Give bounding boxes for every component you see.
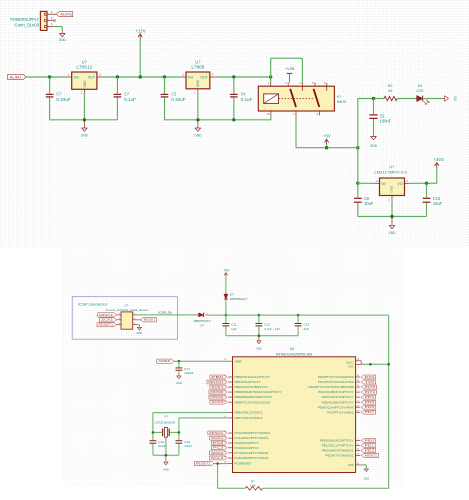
U5 pin 28 PC5 with label SCL0 xyxy=(209,456,268,460)
U5 pin 10 PD6 with label PD6 xyxy=(318,405,376,409)
junction VCC riser xyxy=(387,363,390,366)
capacitor C14 100nF xyxy=(176,361,195,376)
pin 3 of U3 xyxy=(374,179,379,184)
pin 3 of J1 xyxy=(47,22,53,26)
svg-text:PE1: PE1 xyxy=(365,444,376,447)
svg-text:GND: GND xyxy=(59,37,66,42)
power symbol +5V (bottom sheet) xyxy=(223,268,230,276)
LED D3 xyxy=(416,83,429,104)
svg-text:OUT: OUT xyxy=(200,76,208,80)
wire R2 to D3 xyxy=(397,98,417,100)
svg-text:GND: GND xyxy=(81,133,88,138)
pin 2 of J1 (unconnected) xyxy=(47,16,55,22)
capacitor C19 22pF xyxy=(176,440,193,455)
svg-text:PB4/MISO0/RXD1/PTCXY: PB4/MISO0/RXD1/PTCXY xyxy=(235,395,273,399)
svg-text:SDA0: SDA0 xyxy=(211,452,225,455)
svg-text:+5V: +5V xyxy=(323,134,331,139)
power symbol +5V xyxy=(323,134,331,144)
resonator ground rail xyxy=(153,454,179,456)
svg-text:PB1/OC1A/PTCXY: PB1/OC1A/PTCXY xyxy=(235,380,262,384)
svg-text:C?: C? xyxy=(124,92,129,97)
wire D2 to 5V node xyxy=(225,302,227,315)
U5 pin 13 PB1 with label RES1013 xyxy=(207,380,261,384)
resistor R2 1K xyxy=(384,83,397,101)
svg-text:INT0: INT0 xyxy=(365,386,377,389)
wire PB7 to resonator xyxy=(179,417,228,419)
U5 pin 17 PB5 with label SCK0 xyxy=(210,400,271,404)
svg-text:VI: VI xyxy=(381,182,386,186)
svg-text:Conn_01x03: Conn_01x03 xyxy=(15,22,40,27)
svg-text:PD6: PD6 xyxy=(365,406,376,409)
wire resonator left leg xyxy=(153,413,163,441)
junction at C10 top xyxy=(425,182,428,185)
svg-text:POWERSUPPLY: POWERSUPPLY xyxy=(10,17,39,22)
U5 pin 7 PB6/XTAL1 xyxy=(225,411,264,415)
svg-text:PD7: PD7 xyxy=(365,411,376,414)
U5 AVCC pin 18 xyxy=(346,359,361,365)
grid top sheet xyxy=(0,0,469,248)
U5 pin 24 PC1 with label SCK1 xyxy=(209,436,268,440)
U5 pin 29 PC6/RESET with label RESET1 xyxy=(224,462,252,466)
svg-text:PE0/SDA1/ACO/PTCXY: PE0/SDA1/ACO/PTCXY xyxy=(320,439,354,443)
svg-text:0.33uF: 0.33uF xyxy=(171,97,186,102)
junction +5V xyxy=(325,146,328,149)
svg-text:PE2: PE2 xyxy=(365,449,376,452)
wire relay common to +5V rail xyxy=(295,115,297,147)
svg-text:GND: GND xyxy=(163,467,169,471)
wire 5V down right side xyxy=(388,315,390,364)
svg-text:C4: C4 xyxy=(241,92,246,97)
grid bottom sheet xyxy=(62,248,404,486)
svg-text:RX0: RX0 xyxy=(365,376,376,379)
svg-text:TX0: TX0 xyxy=(365,381,376,384)
wire resonator right leg xyxy=(169,418,179,440)
pin 1 of U1 xyxy=(66,73,72,78)
wire U2 OUT to relay xyxy=(215,76,271,78)
wire U3 GND down xyxy=(391,200,393,217)
svg-text:MOSI0: MOSI0 xyxy=(210,391,224,394)
junction at U3 input xyxy=(356,182,359,185)
svg-text:CSTCE16M0V53-R0: CSTCE16M0V53-R0 xyxy=(155,420,176,424)
svg-text:GND: GND xyxy=(176,381,182,385)
svg-text:GND: GND xyxy=(363,477,369,481)
wire +VSB to relay pin xyxy=(289,79,291,83)
svg-text:PC3/ADC3/PTCY: PC3/ADC3/PTCY xyxy=(235,446,260,450)
global label RESET1 xyxy=(97,323,117,327)
svg-text:PB5/PTCXY/XCK1/SCK0: PB5/PTCXY/XCK1/SCK0 xyxy=(235,400,271,404)
svg-text:1uF: 1uF xyxy=(303,327,309,331)
svg-text:GND: GND xyxy=(388,230,395,235)
wire RESET pull-up down xyxy=(217,464,219,489)
ground symbol under C6 xyxy=(370,136,377,148)
junction resonator right xyxy=(178,431,181,434)
svg-text:RESET1: RESET1 xyxy=(196,462,212,465)
wire U1 OUT to U2 IN xyxy=(103,76,181,78)
resistor R1 10K xyxy=(245,480,262,490)
svg-text:GND: GND xyxy=(196,80,200,88)
svg-text:PC4/ADC4/PTCY/SDA0: PC4/ADC4/PTCY/SDA0 xyxy=(235,451,269,455)
svg-text:ATMEGA328PB-AN: ATMEGA328PB-AN xyxy=(276,352,313,356)
global label MOSI1 xyxy=(140,318,156,322)
svg-text:VO: VO xyxy=(397,182,403,186)
power symbol +12V xyxy=(136,28,146,38)
svg-text:10uF: 10uF xyxy=(433,201,443,206)
wire PB6 to resonator xyxy=(153,412,228,414)
svg-text:J?: J? xyxy=(124,303,128,307)
svg-text:PD5/OC0B/T1/PTCXY: PD5/OC0B/T1/PTCXY xyxy=(322,400,354,404)
wire J2 pin6 to GND xyxy=(137,325,139,328)
capacitor C6 100nF xyxy=(369,99,391,137)
wire R1 to VCC riser xyxy=(263,487,389,489)
svg-text:22pF: 22pF xyxy=(184,444,192,448)
wire rail to relay coil pin xyxy=(270,77,272,83)
wire main 5V line xyxy=(209,314,226,316)
junction at C4 top xyxy=(232,75,235,78)
capacitor C9 10uF xyxy=(354,183,374,216)
U5 pin 32 PD2 with label INT0 xyxy=(309,385,377,389)
ground symbol at J2 xyxy=(137,327,141,330)
svg-text:IN: IN xyxy=(74,76,79,80)
connector J2 Conn_02x03_Odd_Even xyxy=(106,303,149,329)
relay K1 IM03 xyxy=(258,86,346,111)
junction rail2 at C4 bottom xyxy=(232,118,235,121)
svg-text:PD1/PTCXY/OC4A/TXD0: PD1/PTCXY/OC4A/TXD0 xyxy=(318,380,354,384)
svg-text:1uF: 1uF xyxy=(231,327,237,331)
svg-text:X?: X? xyxy=(164,414,168,418)
U5 pin 23 PC0 with label MISO1 xyxy=(208,431,271,435)
svg-text:AREF: AREF xyxy=(235,359,243,363)
wire RESET1 to pin xyxy=(214,463,228,465)
svg-text:GND: GND xyxy=(83,80,87,88)
svg-text:PC1/ADC1/PTCY/SCK1: PC1/ADC1/PTCY/SCK1 xyxy=(235,436,269,440)
capacitor C4 0.1uF xyxy=(230,77,253,120)
U5 pin 6 PE1 with label PE1 xyxy=(322,444,376,448)
wire relay coil- to ground rail xyxy=(270,115,272,119)
wire +5V rail down to U3 input xyxy=(357,148,359,184)
U5 pin 15 PB3 with label MOSI0 xyxy=(209,390,282,394)
ground symbol cap rail xyxy=(256,336,262,351)
svg-text:MISO1: MISO1 xyxy=(365,454,379,457)
wire +5V rail up to LED branch xyxy=(357,99,359,148)
junction AVCC xyxy=(369,363,372,366)
svg-text:U5: U5 xyxy=(290,347,295,351)
svg-text:RES1013: RES1013 xyxy=(208,381,224,384)
U5 VCC pin 4 xyxy=(348,364,361,368)
svg-text:SCL0: SCL0 xyxy=(211,457,225,460)
pin 3 of U1 xyxy=(97,73,103,78)
svg-text:PB6/XTAL1/TOSC1: PB6/XTAL1/TOSC1 xyxy=(235,411,264,415)
U5 pin 26 PC3 with label PC3 xyxy=(211,446,259,450)
svg-text:+VSB: +VSB xyxy=(285,66,295,71)
power symbol +VSB xyxy=(285,66,295,79)
U5 pin 30 PD0 with label RX0 xyxy=(318,375,376,379)
svg-text:1K: 1K xyxy=(388,88,393,93)
ground symbol under C14 xyxy=(177,376,181,379)
wire VCC riser xyxy=(388,364,390,488)
diode D2 MBR0520LT (5V feed) xyxy=(224,292,248,302)
wire resonator center pin to ground xyxy=(165,437,167,455)
capacitor C1 0.33uF xyxy=(46,77,71,120)
svg-text:PD4: PD4 xyxy=(365,396,376,399)
svg-text:L78S12: L78S12 xyxy=(76,65,93,70)
U5 pin 22 PE3 with label MISO1 xyxy=(325,453,378,457)
svg-text:0.33uF: 0.33uF xyxy=(56,97,71,102)
junction at C12 xyxy=(258,314,261,317)
global label RESET1 at U5 xyxy=(194,462,214,466)
junction at C2 top xyxy=(116,75,119,78)
wire +5V to D2 xyxy=(225,277,227,292)
svg-text:PC2/ADC2/PTCY: PC2/ADC2/PTCY xyxy=(235,441,260,445)
resonator X1 CSTCE16M0V53 xyxy=(155,414,176,437)
svg-text:MISO0: MISO0 xyxy=(210,396,224,399)
junction resonator ground xyxy=(165,454,168,457)
wire J2 pin2 ICSP_5V xyxy=(137,314,195,316)
svg-text:L7805: L7805 xyxy=(191,65,205,70)
svg-text:PD2/PTCXY/INT0/OC3B/OC4B: PD2/PTCXY/INT0/OC3B/OC4B xyxy=(309,385,354,389)
ground symbol resonator xyxy=(163,455,169,471)
global label AREF xyxy=(157,359,174,363)
svg-text:GND: GND xyxy=(137,331,143,335)
U5 pin 25 PC2 with label PC2 xyxy=(211,441,259,445)
svg-text:PD0/PTCXY/OC3A/RXD0: PD0/PTCXY/OC3A/RXD0 xyxy=(318,375,354,379)
junction at C1 top xyxy=(48,75,51,78)
U5 pin 9 PD5 with label PD5 xyxy=(322,400,376,404)
svg-text:GND: GND xyxy=(194,133,201,138)
junction at C13 xyxy=(297,314,300,317)
power symbol +3V3 xyxy=(434,157,445,167)
regulator U3 LM1117MPX-3.3 xyxy=(374,164,407,195)
junction resonator left xyxy=(152,431,155,434)
global label ALIM1 feeding rail xyxy=(8,74,27,79)
pin 1 of U3 (GND) xyxy=(388,196,392,202)
junction cap rail xyxy=(258,334,261,337)
svg-text:D?: D? xyxy=(200,323,204,327)
svg-text:PB0/ICP1/CLK1/PTCXY: PB0/ICP1/CLK1/PTCXY xyxy=(235,375,271,379)
svg-text:Conn_02x03_Odd_Even: Conn_02x03_Odd_Even xyxy=(106,308,149,312)
junction relay feed xyxy=(269,75,272,78)
wire RESET bottom to R1 xyxy=(218,487,246,489)
svg-text:+12V: +12V xyxy=(136,28,146,33)
wire U3 VO to +3V3 xyxy=(410,167,437,183)
hierarchical output arrow xyxy=(441,96,448,102)
relay coil xyxy=(264,94,279,104)
ground rail caps xyxy=(226,335,298,337)
wire +5V symbol to rail xyxy=(326,144,328,148)
relay contact arm 1 xyxy=(290,86,302,107)
svg-text:PD7/PTCXY/AIN1: PD7/PTCXY/AIN1 xyxy=(327,410,354,414)
U5 GND pin 21 xyxy=(348,463,360,467)
U5 pin 19 PE2 with label PE2 xyxy=(322,449,376,453)
U5 pin 3 PE0 with label PE0 xyxy=(320,439,376,443)
global label SCK1 xyxy=(100,318,117,322)
global label ALIM1 at J1 pin 1 xyxy=(56,12,73,17)
global label MISO1 xyxy=(98,313,117,317)
svg-text:PD3/OC2B/INT1/PTCXY: PD3/OC2B/INT1/PTCXY xyxy=(318,390,354,394)
svg-text:ICSP_5V: ICSP_5V xyxy=(158,311,171,315)
svg-text:4.7uF ~ 16V: 4.7uF ~ 16V xyxy=(264,327,280,331)
junction rail2 at U2 GND xyxy=(196,118,199,121)
svg-text:ALIM1: ALIM1 xyxy=(10,75,23,80)
ground symbol under U2 xyxy=(194,120,201,138)
svg-text:ALIM1: ALIM1 xyxy=(60,12,73,17)
svg-text:100nF: 100nF xyxy=(184,371,194,375)
AREF pin of U5 xyxy=(224,359,242,363)
capacitor C3 0.33uF xyxy=(161,77,186,120)
svg-text:AREF: AREF xyxy=(158,360,171,363)
relay actuation dashed line xyxy=(279,98,315,100)
svg-text:PD6/OC0A/PTCXY/AIN0: PD6/OC0A/PTCXY/AIN0 xyxy=(318,405,354,409)
capacitor C12 4.7uF xyxy=(256,315,281,336)
wire U2 GND down to rail xyxy=(197,92,199,119)
junction +5V rail right xyxy=(356,146,359,149)
wire U5 GND xyxy=(360,465,366,469)
capacitor C2 0.1uF xyxy=(114,77,137,120)
svg-text:LM1117MPX-3.3: LM1117MPX-3.3 xyxy=(374,169,407,174)
svg-text:ICSP connector: ICSP connector xyxy=(78,303,108,307)
ground rail 2 (under U2 to relay) xyxy=(165,119,271,121)
U5 pin 1 PD3 with label INT1 xyxy=(318,390,377,394)
ICSP box xyxy=(72,297,177,340)
svg-text:SCK1: SCK1 xyxy=(211,437,225,440)
svg-text:PC5/ADC5/PTCY/SCL0: PC5/ADC5/PTCY/SCL0 xyxy=(235,456,269,460)
regulator U1 L78S12 xyxy=(72,60,97,90)
svg-text:10uF: 10uF xyxy=(364,201,374,206)
+5V distribution rail xyxy=(296,147,358,149)
svg-text:SCK1: SCK1 xyxy=(211,386,224,389)
junction at C3 top xyxy=(163,75,166,78)
svg-text:S2: S2 xyxy=(453,96,457,100)
svg-text:AVCC: AVCC xyxy=(346,360,354,364)
pin 3 of U2 xyxy=(210,73,215,78)
wire VCC to riser xyxy=(361,363,389,365)
pins of J2 xyxy=(117,313,138,325)
ground symbol under U1 xyxy=(81,120,88,138)
ground symbol GND at J1 xyxy=(59,31,66,42)
svg-text:MBR0520LT: MBR0520LT xyxy=(230,297,248,301)
svg-text:IM03: IM03 xyxy=(337,99,346,104)
svg-text:GND: GND xyxy=(256,346,262,350)
U5 pin 16 PB4 with label MISO0 xyxy=(209,395,272,399)
svg-text:C3: C3 xyxy=(171,92,176,97)
wire 5V line to MCU area xyxy=(226,314,389,316)
ground symbol at U5 xyxy=(363,469,369,481)
connector J1 POWERSUPPLY Conn_01x03 xyxy=(10,11,47,30)
svg-text:PC2: PC2 xyxy=(213,442,225,445)
svg-text:PE1/SCL1/T4/PTCXY: PE1/SCL1/T4/PTCXY xyxy=(322,444,354,448)
ground symbol under U3 xyxy=(388,217,395,236)
capacitor C10 10uF xyxy=(423,183,443,216)
regulator U2 L7805 xyxy=(186,60,210,89)
svg-text:LED: LED xyxy=(416,88,423,93)
U5 pin 31 PD1 with label TX0 xyxy=(318,380,376,384)
svg-text:OUT: OUT xyxy=(88,76,96,80)
U5 pin 8 PB7/XTAL2 xyxy=(225,416,264,420)
wire over relay to contact pin xyxy=(271,58,303,83)
svg-text:PB7/XTAL2/TOSC2: PB7/XTAL2/TOSC2 xyxy=(235,416,264,420)
junction RESET xyxy=(216,462,219,465)
svg-text:C?: C? xyxy=(56,92,61,97)
MCU U5 ATMEGA328PB-AN xyxy=(233,347,356,473)
junction 5V node xyxy=(225,314,228,317)
junction at +12V xyxy=(139,75,142,78)
svg-text:+3V3: +3V3 xyxy=(434,157,445,162)
svg-text:PD5: PD5 xyxy=(365,401,376,404)
junction rail1 at U1 GND xyxy=(83,118,86,121)
wire to U3 VI xyxy=(358,182,375,184)
svg-text:GND: GND xyxy=(390,185,394,192)
svg-text:MISO1: MISO1 xyxy=(209,432,224,435)
relay contact arm 2 xyxy=(314,86,327,107)
capacitor C11 1uF xyxy=(223,315,238,336)
svg-text:0.1uF: 0.1uF xyxy=(124,97,136,102)
wire D3 to output pin xyxy=(423,98,442,100)
pin 1 of U2 xyxy=(181,73,186,78)
svg-text:PB0: PB0 xyxy=(211,376,225,379)
pin 2 of U2 (GND) xyxy=(194,89,198,95)
junction at C6 top xyxy=(372,97,375,100)
wire LED branch horizontal xyxy=(358,98,384,100)
svg-text:0.1uF: 0.1uF xyxy=(241,97,253,102)
wire J1 pin3 to GND xyxy=(53,27,62,32)
svg-text:PE2/A6/ICP3/MOSI1: PE2/A6/ICP3/MOSI1 xyxy=(322,449,355,453)
U5 pin 2 PD4 with label PD4 xyxy=(322,395,376,399)
wire AREF xyxy=(174,360,228,362)
ground rail 3 (under U3) xyxy=(358,216,427,218)
U5 pin 12 PB0 with label PB0 xyxy=(210,375,271,379)
svg-text:INT1: INT1 xyxy=(365,391,377,394)
svg-text:22pF: 22pF xyxy=(158,444,166,448)
relay top pins xyxy=(268,82,327,86)
pin 2 of U3 xyxy=(405,179,410,184)
svg-text:PB2/SS2/OC1B/PTCXY: PB2/SS2/OC1B/PTCXY xyxy=(235,385,269,389)
svg-text:PB3/MOSI0/TXD1/OC2A/PTCXY: PB3/MOSI0/TXD1/OC2A/PTCXY xyxy=(235,390,282,394)
svg-text:PD4/XCK1/T0/PTCXY: PD4/XCK1/T0/PTCXY xyxy=(322,395,354,399)
svg-text:RESET1: RESET1 xyxy=(99,324,115,327)
U5 pin 14 PB2 with label SCK1 xyxy=(210,385,269,389)
pin 1 of J1 xyxy=(47,10,56,14)
wire main +12V input rail (label to U1) xyxy=(26,76,66,78)
svg-text:PE0: PE0 xyxy=(365,439,376,442)
relay bottom pins xyxy=(267,111,320,116)
diode D1 MBR0520LT (ICSP feed) xyxy=(194,313,212,327)
svg-text:VCC: VCC xyxy=(348,365,354,369)
svg-text:PC0/ADC0/PTCY/MISO1: PC0/ADC0/PTCY/MISO1 xyxy=(235,431,271,435)
svg-text:IN: IN xyxy=(188,76,193,80)
wire J2 pin4 to MOSI1 xyxy=(137,319,140,321)
svg-text:100nF: 100nF xyxy=(380,119,392,124)
svg-text:GND: GND xyxy=(348,463,354,467)
capacitor C13 1uF xyxy=(295,315,310,336)
wire +12V to rail xyxy=(139,39,141,77)
wire U1 GND down to rail xyxy=(83,92,85,119)
svg-text:MISO1: MISO1 xyxy=(99,314,114,317)
junction rail3 at U3 GND xyxy=(390,215,393,218)
junction at C14 xyxy=(178,360,181,363)
svg-text:SCK0: SCK0 xyxy=(211,401,224,404)
svg-text:PC6/RESET: PC6/RESET xyxy=(235,462,252,466)
svg-text:+5V: +5V xyxy=(223,268,230,272)
svg-text:GND: GND xyxy=(370,143,377,148)
svg-text:PC3: PC3 xyxy=(213,447,225,450)
pin 2 of U1 (GND) xyxy=(81,89,85,94)
svg-text:SCK1: SCK1 xyxy=(101,319,114,322)
ground rail 1 (under U1) xyxy=(50,119,118,121)
svg-text:MOSI1: MOSI1 xyxy=(144,319,156,322)
U5 pin 11 PD7 with label PD7 xyxy=(327,410,375,414)
svg-text:PE3/A7/T3/MISO1: PE3/A7/T3/MISO1 xyxy=(325,454,354,458)
capacitor C18 22pF xyxy=(150,440,167,455)
U5 pin 27 PC4 with label SDA0 xyxy=(209,451,268,455)
